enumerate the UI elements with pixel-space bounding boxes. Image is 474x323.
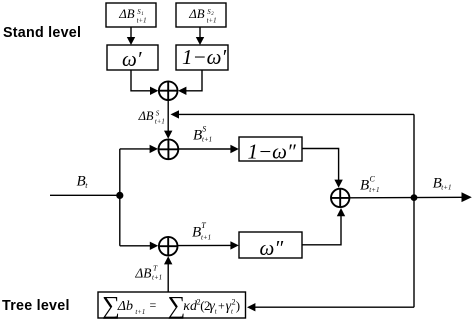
box 1-omega-prime bbox=[176, 45, 228, 70]
svg-text:B: B bbox=[193, 128, 202, 144]
svg-text:ΔB: ΔB bbox=[138, 109, 154, 123]
label omega-dblprime in box bbox=[260, 236, 284, 260]
wire feedback bottom to formula box bbox=[247, 303, 414, 311]
wire split vertical bbox=[119, 149, 121, 246]
box delta-B-S2 bbox=[176, 3, 226, 27]
wire Bt input bbox=[50, 194, 120, 196]
label 1-omega-dblprime in box bbox=[248, 140, 296, 164]
wire omega-dblprime box to summer U4 bottom bbox=[302, 208, 345, 245]
svg-text:1−ω″: 1−ω″ bbox=[248, 140, 296, 164]
label Bt+1 output bbox=[433, 175, 452, 191]
svg-text:1−ω′: 1−ω′ bbox=[182, 45, 226, 69]
svg-text:): ) bbox=[236, 298, 240, 313]
label B-S-t+1 bbox=[193, 125, 212, 144]
svg-text:T: T bbox=[201, 221, 206, 230]
formula box bbox=[98, 292, 246, 318]
svg-text:B: B bbox=[360, 177, 369, 193]
formula sum delta-b bbox=[102, 293, 240, 320]
wire summer U4 to output bbox=[350, 192, 472, 202]
wire omega-prime box to summer U1 bbox=[131, 70, 158, 95]
svg-text:Tree level: Tree level bbox=[2, 298, 70, 314]
summer U4 bbox=[331, 189, 349, 207]
label omega-prime in box bbox=[122, 47, 142, 71]
svg-text:t+1: t+1 bbox=[137, 18, 147, 25]
svg-text:ΔB: ΔB bbox=[118, 7, 135, 21]
label delta-B-S node bbox=[138, 109, 165, 126]
wire box S2 to 1-omega-prime box bbox=[196, 27, 204, 45]
label B-T-t+1 bbox=[192, 221, 211, 241]
wire split to summer U2 bbox=[120, 145, 158, 153]
svg-text:t+1: t+1 bbox=[135, 309, 145, 316]
svg-text:ΔB: ΔB bbox=[134, 265, 151, 280]
svg-text:B: B bbox=[192, 225, 201, 241]
summer U1 bbox=[159, 81, 178, 100]
box delta-B-S1 bbox=[106, 3, 156, 27]
svg-text:t+1: t+1 bbox=[369, 186, 379, 194]
svg-text:t+1: t+1 bbox=[152, 274, 162, 282]
wire feedback top horizontal bbox=[171, 110, 415, 118]
svg-text:t+1: t+1 bbox=[441, 184, 451, 192]
svg-text:t+1: t+1 bbox=[155, 119, 165, 126]
wire split to summer U3 bbox=[120, 242, 158, 250]
svg-text:ω′: ω′ bbox=[122, 47, 142, 71]
svg-text:ω″: ω″ bbox=[260, 236, 284, 260]
svg-text:S: S bbox=[202, 125, 206, 134]
box 1-omega-dblprime bbox=[239, 137, 302, 161]
wire box S1 to omega-prime box bbox=[127, 27, 135, 45]
label 1-omega-prime in box bbox=[182, 45, 226, 69]
wire summer U3 to omega-dblprime box bbox=[178, 241, 239, 249]
wire 1-omega-dblprime box to summer U4 top bbox=[302, 149, 343, 188]
svg-text:t+1: t+1 bbox=[202, 136, 212, 144]
svg-text:S: S bbox=[156, 109, 160, 117]
label delta-B-T node bbox=[134, 263, 162, 281]
svg-text:Stand level: Stand level bbox=[3, 25, 81, 41]
svg-text:T: T bbox=[153, 263, 158, 272]
svg-text:=: = bbox=[150, 298, 157, 312]
node output dot bbox=[411, 194, 418, 201]
svg-text:t: t bbox=[231, 309, 234, 316]
node split dot bbox=[116, 192, 123, 199]
label B-C-t+1 bbox=[360, 175, 379, 195]
label Bt input bbox=[77, 173, 89, 190]
svg-text:C: C bbox=[370, 175, 376, 184]
label delta-B-S1 in box bbox=[118, 7, 146, 25]
box omega-dblprime bbox=[239, 232, 302, 258]
svg-text:1: 1 bbox=[141, 12, 144, 17]
wire summer U2 to 1-omega-dblprime box bbox=[178, 145, 238, 153]
svg-text:2: 2 bbox=[211, 12, 214, 17]
svg-text:B: B bbox=[77, 173, 86, 189]
box omega-prime bbox=[107, 45, 158, 70]
summer U2 bbox=[159, 139, 179, 159]
wire summer U1 to summer U2 bbox=[164, 100, 172, 139]
svg-text:t+1: t+1 bbox=[207, 18, 217, 25]
svg-text:t+1: t+1 bbox=[201, 233, 211, 241]
svg-text:+: + bbox=[218, 298, 225, 312]
svg-text:ΔB: ΔB bbox=[188, 7, 205, 21]
svg-text:t: t bbox=[85, 181, 88, 190]
wire formula box to summer U3 bbox=[164, 256, 172, 292]
svg-text:Δb: Δb bbox=[117, 299, 133, 314]
wire 1-omega-prime box to summer U1 bbox=[178, 70, 202, 95]
summer U3 bbox=[159, 237, 178, 256]
label delta-B-S2 in box bbox=[188, 7, 216, 25]
wire feedback vertical bbox=[413, 114, 415, 307]
